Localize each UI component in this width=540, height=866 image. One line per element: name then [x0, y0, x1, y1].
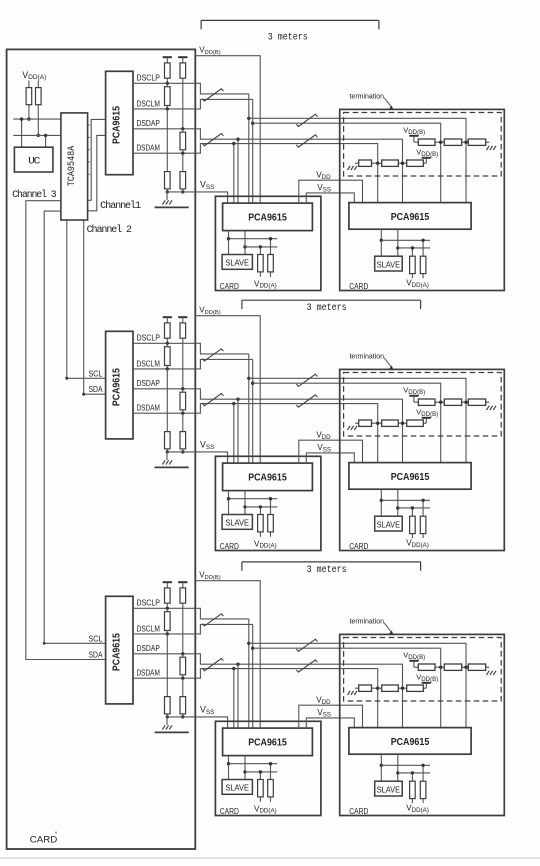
- power rail VDD(B) T-bar ch3 SCL: [163, 582, 172, 588]
- wire VSS card1-card2 ch2: [306, 453, 354, 463]
- wire DSDAP drop to card1 ch3: [237, 664, 239, 728]
- wire SCL bus (UC to TCA9548A): [13, 118, 61, 120]
- wire term2 chain ch1: [355, 162, 426, 164]
- wire pin DSCLM ch3: [133, 633, 195, 635]
- label CARD ch1 card1: [220, 281, 239, 291]
- junction term2 nodes ch3: [376, 687, 404, 690]
- wire DSCLM pair jog ch1: [195, 99, 252, 109]
- resistor slave pullup1 ch1 card1: [258, 245, 264, 277]
- wire DSCLP branch ch2: [249, 378, 466, 462]
- wire DSCLM branch ch3: [253, 648, 441, 727]
- power rail T-bar term2 ch3: [422, 683, 431, 688]
- remote CARD box ch2 card1: [215, 456, 321, 550]
- termination pointer arrow ch2: [384, 358, 393, 370]
- pin label DSDAP ch1: [137, 118, 161, 128]
- resistor term1 Rb ch3: [444, 664, 461, 670]
- wire card2 bus1 ch3: [380, 754, 430, 781]
- pin label DSCLM ch2: [137, 358, 160, 368]
- resistor slave pullup1 ch3 card1: [258, 770, 264, 802]
- resistor pulldown ch3 SDA: [180, 697, 186, 714]
- dimension bracket 3 meters (channel1): [201, 20, 379, 43]
- power rail VDD(B) T-bar ch2 SCL: [163, 317, 172, 323]
- wire VDD card1-card2 ch3: [299, 705, 363, 728]
- resistor pulldown ch1 SCL: [165, 172, 171, 189]
- junction term2 nodes ch2: [376, 422, 404, 425]
- resistor term1 Ra ch3: [418, 664, 435, 670]
- wire R2 to SDA bus + junction: [37, 105, 40, 137]
- ground bar ch1 host: [155, 206, 189, 208]
- junction term1 nodes ch1: [439, 141, 468, 144]
- multiplexer U1 TCA9548A: [61, 113, 88, 220]
- label CARD ch3 card2: [349, 806, 368, 816]
- resistor middle ch2 SDA: [180, 389, 186, 415]
- wire card2 bus2 ch2: [396, 489, 430, 516]
- wire VSS card1-card2 ch1: [306, 193, 354, 203]
- power rail VDD(B) T-bar ch1 SCL: [163, 57, 172, 63]
- pin label DSDAM ch1: [137, 143, 160, 153]
- wire card1 bus2 ch3: [243, 756, 277, 780]
- wire term1 chain ch1: [414, 141, 489, 143]
- wire term2 chain ch2: [355, 422, 426, 424]
- svg-text:3 meters: 3 meters: [307, 565, 347, 576]
- buffer PCA9615 ch3 card1: [223, 728, 313, 756]
- resistor pulldown ch1 SDA: [180, 172, 186, 189]
- net label VSS ch2 mid: [317, 443, 331, 453]
- wire DSCLP branch ch1: [249, 118, 466, 202]
- resistor term2 Rb ch2: [382, 420, 399, 426]
- resistor pulldown ch3 SCL: [165, 697, 171, 714]
- net label VDD(A) ch3 card2: [406, 804, 429, 814]
- wire DSDAM drop to card1 ch2: [233, 404, 235, 464]
- slave device ch2 card1: [222, 515, 252, 530]
- wire VSS into card1 ch3: [0, 0, 1, 1]
- pin label SDA (U4): [89, 650, 103, 660]
- pin label DSCLP ch3: [137, 598, 161, 608]
- svg-text:CARD: CARD: [220, 281, 239, 291]
- buffer PCA9615 ch2 card1: [223, 463, 313, 491]
- wire pin DSDAP ch1: [133, 128, 195, 130]
- label CARD ch1 card2: [349, 281, 368, 291]
- wire card2 bus2 ch3: [396, 754, 430, 781]
- svg-text:CARD: CARD: [349, 281, 368, 291]
- wire SDA bus (UC to TCA9548A): [13, 134, 61, 136]
- wire DSDAM pair ch3: [195, 667, 377, 728]
- wire DSDAM pair ch1: [195, 142, 377, 203]
- svg-text:DSDAM: DSDAM: [137, 403, 160, 413]
- wire + junction ch2 SCLP: [166, 338, 169, 345]
- wire VSS card1-card2 ch3: [306, 718, 354, 728]
- microcontroller UC: [14, 147, 53, 172]
- slave device ch1 card2: [375, 256, 403, 271]
- resistor pulldown ch2 SCL: [165, 432, 171, 449]
- buffer PCA9615 ch1 card1: [223, 203, 313, 231]
- pin label DSDAM ch2: [137, 403, 160, 413]
- svg-text:PCA9615: PCA9615: [110, 106, 122, 144]
- pin label DSDAP ch2: [137, 378, 161, 388]
- resistor R1 (host SCL pullup): [26, 88, 32, 105]
- resistor pulldown ch2 SDA: [180, 432, 186, 449]
- wire pin DSDAP ch2: [133, 388, 195, 390]
- net label VDD(A) ch3 card1: [254, 804, 277, 814]
- resistor term2 Rb ch1: [382, 160, 399, 166]
- wire channel1 SDA (TCA to PCA9615 U2): [88, 135, 106, 210]
- twisted pair marker ch3 SDA b: [296, 660, 317, 672]
- resistor middle ch3 SDA: [180, 654, 186, 680]
- resistor middle ch2 SCL: [165, 343, 171, 370]
- wire DSCLP drop to card1 ch2: [247, 354, 250, 463]
- junction term2 nodes ch1: [376, 162, 404, 165]
- wire VDD(A) to R1: [28, 81, 30, 88]
- wire DSCLM drop to card1 ch1: [251, 99, 254, 203]
- termination network box ch3: [344, 638, 502, 702]
- wire ch1 SCLM down: [166, 109, 168, 172]
- ground symbol term1 ch2: [487, 406, 497, 410]
- wire card2 bus1 ch2: [380, 489, 430, 516]
- wire card1 bus2 ch2: [243, 491, 277, 515]
- resistor slave pullup1 ch1 card2: [410, 246, 416, 278]
- resistor term1 Ra ch1: [418, 139, 435, 145]
- svg-text:DSCLM: DSCLM: [137, 98, 160, 108]
- wire pin DSCLP ch1: [133, 82, 195, 84]
- svg-text:SLAVE: SLAVE: [377, 784, 401, 794]
- wire DSCLP branch ch3: [249, 643, 466, 727]
- resistor term1 Rb ch2: [444, 399, 461, 405]
- wire channel3 SCL (TCA to PCA9615 U4): [43, 211, 106, 645]
- wire term2 chain ch3: [355, 687, 426, 689]
- resistor slave pullup1 ch2 card1: [258, 505, 264, 537]
- svg-text:SLAVE: SLAVE: [225, 783, 249, 793]
- svg-text:PCA9615: PCA9615: [391, 211, 430, 223]
- label CARD ch2 card2: [349, 541, 368, 551]
- wire DSDAP drop to card1 ch2: [237, 399, 239, 463]
- wire card1 bus1 ch2: [227, 491, 277, 515]
- wire + junction ch3 SCLP: [166, 603, 169, 610]
- ground symbol term2 ch1: [348, 166, 358, 170]
- ground bar ch3 host: [155, 731, 189, 733]
- power rail T-bar term2 ch2: [422, 418, 431, 423]
- power rail VDD(B) T-bar ch1 SDA: [178, 57, 187, 63]
- wire VSS rail ch2: [166, 452, 228, 463]
- wire to gnd rail ch2 SCL: [166, 449, 169, 454]
- net label VSS ch2 host: [200, 440, 214, 451]
- resistor term1 Rc ch2: [468, 399, 485, 405]
- svg-text:UC: UC: [28, 157, 40, 168]
- svg-text:DSCLP: DSCLP: [137, 73, 161, 83]
- svg-text:DSCLM: DSCLM: [137, 623, 160, 633]
- label Channel 2: [87, 224, 133, 236]
- svg-text:CARD: CARD: [220, 806, 239, 816]
- svg-text:SLAVE: SLAVE: [377, 259, 401, 269]
- wire R1 to SCL bus + junction: [27, 105, 30, 121]
- wire DSDAM pair ch2: [195, 402, 377, 463]
- resistor slave pullup2 ch3 card1: [268, 762, 274, 802]
- net label VSS ch1 mid: [317, 183, 331, 193]
- label termination ch2: [350, 352, 385, 361]
- wire card2 bus1 ch1: [380, 229, 430, 256]
- resistor pullup ch1 SDAP: [180, 63, 186, 78]
- wire VSS into card1 ch2: [0, 0, 1, 1]
- wire DSDAP drop to card1 ch1: [237, 139, 239, 203]
- svg-text:SLAVE: SLAVE: [225, 258, 249, 268]
- svg-text:TCA9548A: TCA9548A: [67, 146, 78, 187]
- label Channel1: [100, 200, 141, 212]
- wire DSCLP drop to card1 ch1: [247, 94, 250, 203]
- svg-text:PCA9615: PCA9615: [248, 472, 287, 484]
- termination network box ch2: [344, 373, 502, 437]
- wire VDD(B) ch1 to card1: [195, 56, 260, 203]
- svg-text:PCA9615: PCA9615: [391, 471, 430, 483]
- wire pin DSCLM ch2: [133, 368, 195, 370]
- wire + junction ch1 SCLP: [166, 78, 169, 85]
- svg-text:DSDAP: DSDAP: [137, 643, 161, 653]
- wire DSDAM drop to card1 ch1: [233, 144, 235, 204]
- svg-text:PCA9615: PCA9615: [391, 736, 430, 748]
- resistor pullup ch2 SDAP: [180, 323, 186, 338]
- net label VDD(A) (host pullups): [22, 70, 46, 81]
- net label VDD ch2: [316, 431, 331, 441]
- wire to gnd rail ch1 SCL: [166, 189, 169, 194]
- net label VSS ch3 mid: [317, 708, 331, 718]
- svg-text:Channel 3: Channel 3: [12, 189, 56, 201]
- twisted pair marker ch2 SDA b: [296, 395, 317, 407]
- svg-text:3 meters: 3 meters: [268, 32, 308, 43]
- buffer U3 PCA9615 (host, channel 2): [106, 331, 133, 439]
- resistor slave pullup2 ch1 card1: [268, 237, 274, 277]
- label termination ch1: [350, 92, 385, 101]
- svg-text:3 meters: 3 meters: [307, 303, 347, 314]
- buffer PCA9615 ch2 card2: [349, 463, 471, 490]
- termination pointer arrow ch3: [384, 623, 393, 635]
- wire ch2 SCLM down: [166, 369, 168, 432]
- wire pin DSDAM ch2: [133, 412, 195, 414]
- svg-text:PCA9615: PCA9615: [110, 633, 122, 671]
- buffer U2 PCA9615 (host, channel 1): [106, 71, 133, 174]
- svg-text:CARD: CARD: [220, 541, 239, 551]
- net label VDD(B) term2 ch3: [416, 673, 438, 683]
- label termination ch3: [350, 617, 385, 626]
- wire UC SCL + junction: [20, 117, 23, 147]
- net label VDD(B) term2 ch2: [416, 408, 438, 418]
- resistor term2 Rc ch2: [407, 420, 424, 426]
- twisted pair marker ch1 SCL a: [202, 89, 223, 101]
- remote CARD box ch1 card1: [215, 196, 321, 290]
- ground symbol term2 ch3: [348, 691, 358, 695]
- svg-text:SLAVE: SLAVE: [377, 519, 401, 529]
- net label VDD(A) ch2 card2: [406, 539, 429, 549]
- ground symbol ch3 host: [163, 717, 173, 730]
- junction term1 nodes ch2: [439, 401, 468, 404]
- wire pin DSDAP ch3: [133, 653, 195, 655]
- svg-text:CARD: CARD: [349, 541, 368, 551]
- wire DSDAP pair ch1: [195, 129, 402, 203]
- svg-text:SCL: SCL: [89, 633, 103, 643]
- svg-text:CARD: CARD: [349, 806, 368, 816]
- ground symbol ch2 host: [163, 452, 173, 465]
- wire UC SDA + junction: [44, 134, 47, 148]
- wire card1 bus2 ch1: [243, 231, 277, 255]
- power rail VDD(B) T-bar ch2 SDA: [178, 317, 187, 323]
- dimension bracket 3 meters (channel2): [242, 300, 421, 314]
- net label VDD(A) ch1 card1: [254, 279, 277, 289]
- label CARD (host card): [30, 832, 58, 846]
- resistor term2 Ra ch1: [359, 160, 372, 166]
- wire to gnd rail ch3 SDA: [181, 714, 184, 719]
- resistor slave pullup1 ch2 card2: [410, 506, 416, 538]
- slave device ch1 card1: [222, 255, 252, 270]
- svg-text:PCA9615: PCA9615: [248, 212, 287, 224]
- resistor slave pullup2 ch1 card2: [420, 239, 426, 279]
- svg-text:SDA: SDA: [89, 650, 103, 660]
- scan artifact bottom edge: [0, 857, 540, 859]
- svg-text:DSCLP: DSCLP: [137, 598, 161, 608]
- ground bar ch2 host: [155, 466, 189, 468]
- wire pin DSCLP ch2: [133, 342, 195, 344]
- resistor term1 Rb ch1: [444, 139, 461, 145]
- twisted pair marker ch3 SCL b: [296, 639, 317, 651]
- svg-text:termination: termination: [350, 617, 385, 626]
- twisted pair marker ch1 SCL b: [296, 114, 317, 126]
- power rail T-bar term1 ch3: [409, 661, 418, 667]
- wire card1 bus1 ch3: [227, 756, 277, 780]
- TCA9548A unused channel pin ticks: [88, 125, 90, 174]
- termination pointer arrow ch1: [384, 98, 393, 110]
- svg-text:Channel1: Channel1: [100, 200, 141, 212]
- wire DSCLP drop to card1 ch3: [247, 619, 250, 728]
- wire DSDAP pair ch3: [195, 654, 402, 728]
- slave device ch3 card1: [222, 780, 252, 795]
- wire DSCLM branch ch1: [253, 123, 441, 202]
- svg-text:DSCLP: DSCLP: [137, 333, 161, 343]
- buffer PCA9615 ch1 card2: [349, 203, 471, 230]
- pin label DSDAP ch3: [137, 643, 161, 653]
- wire to gnd rail ch1 SDA: [181, 189, 184, 194]
- remote CARD box ch2 card2: [340, 369, 505, 550]
- resistor slave pullup2 ch3 card2: [420, 764, 426, 804]
- remote CARD box ch3 card2: [340, 634, 505, 815]
- twisted pair marker ch1 SDA a: [202, 134, 223, 146]
- net label VDD(A) ch2 card1: [254, 539, 277, 549]
- resistor pullup ch2 SCLP: [165, 323, 171, 338]
- net label VDD(B) term1 ch3: [403, 650, 425, 660]
- wire + junction ch2 SDAP: [181, 338, 184, 390]
- pin label SCL (U3): [89, 368, 103, 378]
- pin label DSCLP ch1: [137, 73, 161, 83]
- svg-text:SCL: SCL: [89, 368, 103, 378]
- net label VDD(A) ch1 card2: [406, 279, 429, 289]
- svg-text:PCA9615: PCA9615: [248, 737, 287, 749]
- label CARD ch3 card1: [220, 806, 239, 816]
- resistor pullup ch3 SCLP: [165, 588, 171, 603]
- net label VDD(B) term1 ch1: [403, 125, 425, 135]
- wire pin DSCLM ch1: [133, 108, 195, 110]
- net label VDDB ch3 host: [199, 570, 221, 580]
- wire ch1 SDAM down: [182, 153, 184, 171]
- power rail T-bar term1 ch2: [409, 396, 418, 402]
- pin label SCL (U4): [89, 633, 103, 643]
- pin label DSCLM ch3: [137, 623, 160, 633]
- twisted pair marker ch2 SCL b: [296, 374, 317, 386]
- svg-text:termination: termination: [350, 352, 385, 361]
- svg-text:DSDAP: DSDAP: [137, 118, 161, 128]
- svg-text:SLAVE: SLAVE: [225, 518, 249, 528]
- resistor term1 Ra ch2: [418, 399, 435, 405]
- wire term1 chain ch2: [414, 401, 489, 403]
- wire channel3 SDA (TCA to PCA9615 U4): [26, 201, 106, 660]
- wire DSCLP pair jog ch2: [195, 343, 249, 354]
- wire ch3 SCLM down: [166, 634, 168, 697]
- resistor slave pullup1 ch3 card2: [410, 771, 416, 803]
- junction term1 nodes ch3: [439, 666, 468, 669]
- ground symbol term2 ch2: [348, 426, 358, 430]
- wire DSDAM drop to card1 ch3: [233, 669, 235, 729]
- wire term1 chain ch3: [414, 666, 489, 668]
- twisted pair marker ch1 SDA b: [296, 135, 317, 147]
- resistor R2 (host SDA pullup): [36, 88, 42, 105]
- buffer U4 PCA9615 (host, channel 3): [106, 596, 133, 704]
- wire pin DSDAM ch3: [133, 677, 195, 679]
- svg-text:DSDAM: DSDAM: [137, 143, 160, 153]
- svg-text:CARD: CARD: [30, 835, 58, 846]
- wire VSS rail ch3: [166, 717, 228, 728]
- pin label SDA (U3): [89, 384, 103, 394]
- resistor term2 Rc ch1: [407, 160, 424, 166]
- wire card2 bus2 ch1: [396, 229, 430, 256]
- pin label DSDAM ch3: [137, 668, 160, 678]
- wire DSCLM drop to card1 ch3: [251, 624, 254, 728]
- resistor middle ch3 SCL: [165, 608, 171, 635]
- remote CARD box ch1 card2: [340, 109, 505, 290]
- net label VSS ch1 host: [200, 180, 214, 191]
- label CARD ch2 card1: [220, 541, 239, 551]
- pin label DSCLP ch2: [137, 333, 161, 343]
- wire pin DSDAM ch1: [133, 152, 195, 154]
- ground symbol term1 ch3: [487, 671, 497, 675]
- resistor middle ch1 SDA: [180, 129, 186, 155]
- wire DSCLP pair jog ch3: [195, 608, 249, 619]
- resistor term1 Rc ch1: [468, 139, 485, 145]
- svg-text:PCA9615: PCA9615: [110, 368, 122, 406]
- net label VDDB ch1 host: [199, 45, 221, 55]
- resistor term2 Rc ch3: [407, 685, 424, 691]
- termination network box ch1: [344, 113, 502, 177]
- power rail T-bar term1 ch1: [409, 136, 418, 142]
- wire pin DSCLP ch3: [133, 607, 195, 609]
- wire + junction ch3 SDAP: [181, 603, 184, 655]
- resistor term1 Rc ch3: [468, 664, 485, 670]
- net label VSS ch3 host: [200, 705, 214, 716]
- ground symbol ch1 host: [163, 192, 173, 205]
- resistor pullup ch3 SDAP: [180, 588, 186, 603]
- resistor term2 Ra ch2: [359, 420, 372, 426]
- wire VDD card1-card2 ch2: [299, 440, 363, 463]
- wire VSS into card1 ch1: [0, 0, 1, 1]
- slave device ch3 card2: [375, 781, 403, 796]
- wire channel2 SCL (TCA to PCA9615 U3): [65, 220, 105, 380]
- resistor term2 Ra ch3: [359, 685, 372, 691]
- left host CARD box: [7, 49, 196, 849]
- twisted pair marker ch3 SDA a: [202, 659, 223, 671]
- svg-text:DSCLM: DSCLM: [137, 358, 160, 368]
- wire DSCLM pair jog ch3: [195, 624, 252, 634]
- wire to gnd rail ch2 SDA: [181, 449, 184, 454]
- wire to gnd rail ch3 SCL: [166, 714, 169, 719]
- wire DSCLM drop to card1 ch2: [251, 359, 254, 463]
- wire channel2 SDA (TCA to PCA9615 U3): [82, 220, 105, 396]
- power rail VDD(B) T-bar ch3 SDA: [178, 582, 187, 588]
- twisted pair marker ch2 SCL a: [202, 349, 223, 361]
- svg-text:DSDAP: DSDAP: [137, 378, 161, 388]
- resistor term2 Rb ch3: [382, 685, 399, 691]
